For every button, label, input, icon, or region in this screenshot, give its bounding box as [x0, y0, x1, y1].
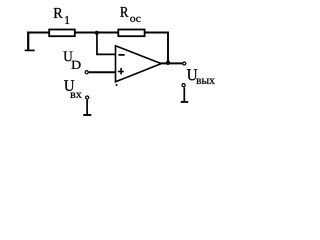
terminal circle Uvyx [182, 84, 185, 87]
op-amp minus sign [119, 54, 125, 56]
label R1 R [54, 8, 63, 18]
stray dot below op-amp [116, 84, 118, 86]
terminal circle UD [85, 71, 88, 74]
label UD sub D [72, 61, 81, 69]
wire UD to non-inverting input [89, 71, 116, 73]
node output junction [166, 61, 170, 65]
wire junction down to inverting input [97, 33, 116, 54]
wire ground to R1 [27, 32, 49, 34]
label Roc R [120, 7, 128, 17]
terminal circle Uvx [86, 96, 89, 99]
wire R1 to Roc [75, 32, 118, 34]
label Uvx U [64, 80, 74, 91]
label R1 sub 1 [65, 16, 69, 24]
ground [25, 32, 35, 51]
label Uvx sub vx [70, 93, 81, 98]
op-amp U1 [116, 46, 162, 82]
terminal lead Uvx [86, 100, 88, 115]
terminal circle output [183, 62, 186, 65]
terminal bar Uvyx [181, 101, 189, 103]
label Uvyx U [187, 69, 197, 80]
terminal bar Uvx [83, 114, 91, 116]
label Roc sub os [130, 17, 140, 22]
wire Roc to feedback corner down to output node [145, 33, 168, 63]
label Uvyx sub vyx [196, 79, 214, 84]
op-amp plus sign [118, 71, 124, 73]
resistor R1 [49, 30, 75, 37]
wire op-amp output [160, 62, 182, 64]
terminal lead Uvyx [183, 87, 185, 101]
node junction inverting branch [95, 31, 99, 35]
resistor Roc [118, 30, 144, 37]
label UD U [64, 52, 73, 62]
